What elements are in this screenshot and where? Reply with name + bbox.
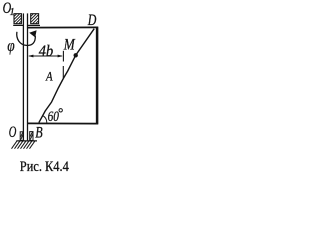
svg-text:1: 1 [10, 7, 15, 18]
svg-text:60: 60 [48, 109, 60, 125]
svg-text:O: O [9, 124, 17, 141]
svg-text:Рис. К4.4: Рис. К4.4 [20, 159, 69, 175]
svg-text:B: B [35, 124, 43, 141]
svg-text:D: D [87, 12, 97, 29]
svg-text:M: M [63, 37, 76, 54]
svg-text:4b: 4b [39, 43, 53, 60]
svg-text:A: A [45, 68, 52, 83]
svg-text:φ: φ [7, 36, 14, 55]
